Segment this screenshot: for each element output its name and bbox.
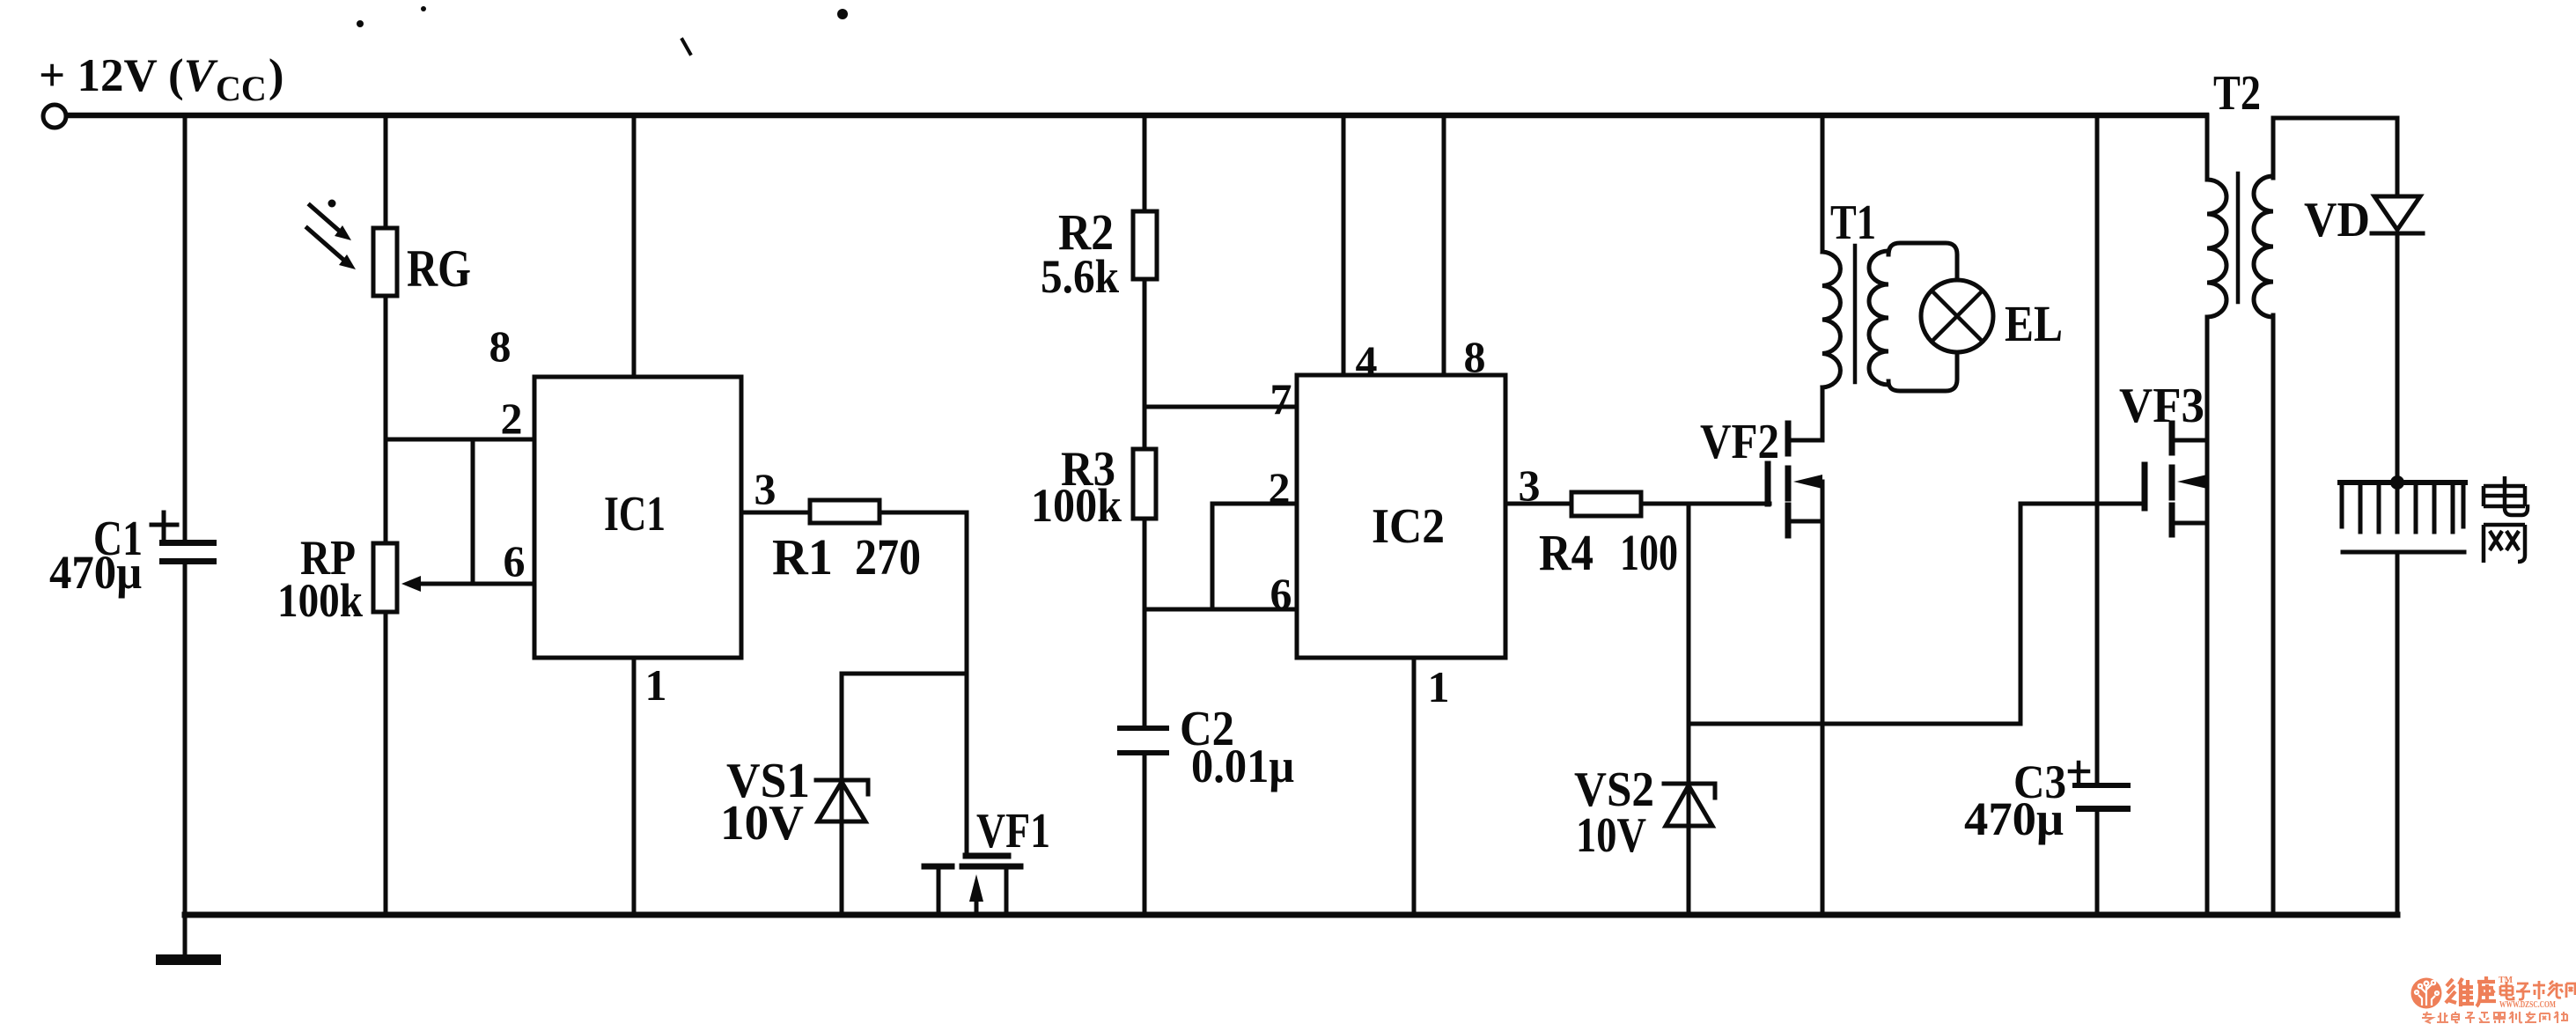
wire VF3 gate run: [2020, 504, 2145, 724]
lamp EL: [1921, 280, 1993, 352]
svg-text:6: 6: [1270, 569, 1292, 618]
svg-text:2: 2: [501, 394, 523, 443]
wire T2 primary top: [2205, 115, 2210, 180]
wire IC2 pin1: [1412, 658, 1417, 914]
wire R2 branch top: [1143, 115, 1147, 211]
wire IC2 pin8: [1442, 115, 1446, 375]
wire RG to RP: [384, 296, 388, 543]
wire top +12V rail: [68, 113, 2206, 119]
wire C1 branch top: [183, 115, 188, 542]
svg-text:100: 100: [1620, 524, 1678, 581]
resistor R2: [1133, 211, 1157, 279]
wire IC2 pin4: [1342, 115, 1346, 375]
wire IC1 pin6 to RP wiper: [417, 582, 534, 586]
resistor R3: [1133, 449, 1156, 519]
resistor R1: [810, 500, 880, 523]
wire T1 secondary to lamp: [1888, 243, 1957, 391]
label C1 value: [49, 512, 143, 599]
wire T2 secondary bottom: [2271, 315, 2276, 914]
wire RG branch top: [384, 115, 388, 228]
scan speck small: [421, 6, 426, 11]
wire top rail right segment (T2 secondary to VD): [2273, 116, 2397, 121]
transformer T2: [2207, 173, 2273, 317]
svg-text:8: 8: [489, 321, 512, 371]
svg-text:R4: R4: [1539, 524, 1593, 581]
svg-text:270: 270: [855, 528, 921, 586]
transformer T1: [1822, 246, 1888, 387]
node junction dot: [2390, 475, 2404, 490]
svg-text:IC1: IC1: [604, 487, 666, 541]
watermark 电子市场网 text: [2500, 981, 2576, 999]
wire T1 primary bottom to VF2 drain: [1821, 387, 1825, 440]
potentiometer RP: [373, 543, 421, 612]
label C3 value: [1964, 755, 2066, 845]
svg-text:VF2: VF2: [1700, 415, 1779, 469]
wire IC2 pin3: [1505, 502, 1571, 506]
diode VD: [2372, 118, 2423, 483]
wire IC1 pin2: [386, 438, 534, 442]
label VS1 value: [720, 754, 810, 851]
label R2 value: [1041, 203, 1119, 303]
watermark slogan 专业电子元器件交易网站: [2422, 1012, 2567, 1023]
svg-text:T1: T1: [1830, 195, 1876, 250]
svg-text:100k: 100k: [277, 574, 363, 627]
svg-text:0.01μ: 0.01μ: [1191, 740, 1294, 792]
svg-text:1: 1: [1428, 662, 1450, 711]
diode VS2 (zener 10V): [1664, 504, 1715, 914]
ground: [156, 914, 221, 965]
op-amp IC2 (555 timer box): [1297, 375, 1505, 658]
svg-text:VF1: VF1: [976, 804, 1050, 858]
capacitor C1: [151, 512, 217, 564]
label IC2 pin numbers: [1269, 332, 1541, 711]
wire RP bottom: [384, 612, 388, 914]
svg-text:3: 3: [754, 464, 776, 513]
svg-text:10V: 10V: [720, 796, 804, 851]
svg-text:R1: R1: [772, 528, 833, 586]
label R4 value: [1539, 524, 1678, 581]
watermark logo: [2411, 978, 2442, 1009]
svg-text:2: 2: [1269, 463, 1291, 512]
scan speck top: [357, 20, 364, 27]
wire IC2 pin2: [1212, 502, 1297, 506]
svg-text:5.6k: 5.6k: [1041, 250, 1119, 303]
wire VS2 to VF3 gate run: [1689, 722, 2020, 726]
node power grid symbol: [2340, 483, 2465, 914]
resistor R4: [1571, 492, 1641, 516]
svg-text:1: 1: [645, 660, 667, 710]
wire R4 to VF2 gate: [1641, 502, 1770, 506]
svg-text:EL: EL: [2005, 295, 2063, 352]
svg-text:100k: 100k: [1031, 479, 1122, 532]
scan speck tick: [682, 40, 690, 54]
scan speck top middle: [837, 9, 848, 19]
label RP value: [277, 531, 363, 627]
svg-text:8: 8: [1464, 332, 1486, 381]
wire C3 branch top: [2095, 115, 2100, 785]
diode VS1 (zener 10V): [816, 674, 868, 914]
svg-text:470μ: 470μ: [1964, 792, 2064, 845]
svg-text:470μ: 470μ: [49, 546, 142, 599]
watermark 维库 brand text: [2446, 976, 2496, 1006]
label VS2 value: [1574, 762, 1654, 863]
wire R1 to VF1 gate: [880, 512, 967, 856]
wire IC1 pin8: [632, 115, 637, 377]
wire R2 to R3: [1143, 279, 1147, 449]
wire pin2-pin6 tie: [471, 439, 475, 584]
svg-text:7: 7: [1270, 374, 1292, 424]
svg-text:4: 4: [1356, 336, 1378, 386]
op-amp IC1 (555 timer box): [534, 377, 741, 658]
label C2 value: [1180, 702, 1294, 792]
wire IC1 pin1: [632, 658, 637, 914]
wire IC1 pin3: [741, 511, 810, 515]
svg-text:WWW.DZSC.COM: WWW.DZSC.COM: [2499, 1000, 2556, 1010]
svg-text:VD: VD: [2304, 193, 2370, 247]
label IC1 pin numbers: [489, 321, 776, 710]
svg-text:+ 12V (VCC): + 12V (VCC): [39, 50, 283, 108]
transistor VF2 (MOSFET): [1768, 424, 1822, 914]
wire T2 secondary top: [2271, 118, 2276, 178]
svg-text:T2: T2: [2213, 66, 2261, 121]
label 电网 (power grid): [2484, 476, 2528, 563]
wire C3 bottom: [2095, 811, 2100, 915]
resistor RG (photoresistor): [307, 200, 397, 297]
wire C2 branch: [1143, 609, 1147, 726]
capacitor C3: [2070, 762, 2131, 812]
wire VS1 branch: [842, 672, 967, 676]
wire T1 primary top: [1821, 115, 1825, 252]
label R1 value: [772, 528, 921, 586]
wire R3 bottom: [1143, 519, 1147, 609]
wire C1 bottom: [183, 564, 188, 914]
label R3 value: [1031, 442, 1122, 532]
svg-text:10V: 10V: [1576, 808, 1646, 863]
capacitor C2: [1117, 726, 1169, 755]
wire IC2 pin7: [1144, 405, 1297, 409]
svg-text:VF3: VF3: [2119, 379, 2204, 433]
wire bottom ground rail: [185, 912, 2397, 918]
wire C2 bottom: [1143, 755, 1147, 914]
wire pin2-pin6 tie (IC2): [1211, 504, 1215, 609]
wire IC2 pin6: [1144, 608, 1297, 612]
transistor VF1 (MOSFET): [924, 856, 1020, 914]
svg-text:IC2: IC2: [1372, 499, 1445, 554]
node +12V supply terminal: [43, 105, 66, 128]
transistor VF3 (MOSFET): [2145, 317, 2207, 914]
svg-text:RG: RG: [407, 239, 471, 298]
svg-text:6: 6: [504, 536, 526, 586]
